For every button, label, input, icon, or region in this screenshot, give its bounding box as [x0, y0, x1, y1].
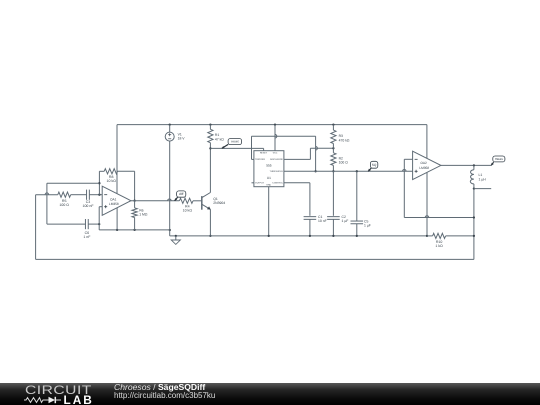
CircuitLab logo zigzag diode symbol: [24, 395, 64, 405]
svg-text:2N3904: 2N3904: [213, 201, 225, 205]
svg-text:100 nF: 100 nF: [82, 204, 94, 208]
svg-text:18 V: 18 V: [178, 137, 186, 141]
net flag diff: [177, 191, 186, 197]
node R10 right: [473, 235, 475, 237]
svg-text:LM358: LM358: [419, 166, 429, 170]
svg-text:1 µF: 1 µF: [342, 219, 349, 223]
label R10: [435, 240, 443, 248]
net flag meas: [493, 156, 505, 162]
node C5 ground: [356, 235, 358, 237]
net flag diff leader: [175, 197, 178, 201]
wire bottom feedback rail: [36, 258, 474, 260]
wire minus node up to R8: [98, 171, 100, 194]
resistor R2 body: [331, 148, 336, 171]
svg-text:1 µF: 1 µF: [364, 224, 371, 228]
wire discharge to R2R3: [310, 147, 333, 149]
svg-text:100 Ω: 100 Ω: [339, 161, 349, 165]
wire hop tri-thr over discharge: [316, 147, 318, 151]
wire hop threshold over OA2 minus drop: [403, 170, 407, 172]
wire hop at input crossing: [45, 193, 49, 195]
wire V1 bottom lead: [169, 141, 171, 236]
wire R5 to C3: [71, 194, 87, 196]
ic U1 555 box: [254, 151, 284, 187]
wire ground spur horizontal: [99, 229, 170, 231]
label R3: [339, 134, 350, 142]
wire R4 to Q1 base: [193, 200, 201, 202]
node minus input junction: [98, 194, 100, 196]
label U1: [267, 176, 271, 180]
wire C6 to plus node: [89, 223, 100, 225]
svg-text:SQ: SQ: [372, 163, 377, 167]
svg-text:diff: diff: [179, 192, 183, 196]
pin label THRESHOLD: [270, 170, 284, 173]
node OA2 V- ground R10: [426, 235, 428, 237]
svg-text:47 kΩ: 47 kΩ: [215, 137, 224, 141]
svg-text:470 kΩ: 470 kΩ: [339, 138, 350, 142]
label R8: [107, 175, 117, 183]
wire L1 tap stub: [474, 188, 491, 190]
wire reset net: [210, 147, 263, 149]
node V1 top rail: [169, 123, 171, 125]
label C6: [83, 231, 91, 239]
svg-text:1 µH: 1 µH: [479, 177, 487, 181]
CircuitLab logo LAB: [64, 393, 94, 405]
svg-text:LM358: LM358: [109, 202, 119, 206]
CircuitLab logo CIRCUIT: [25, 383, 92, 397]
label C1: [318, 215, 327, 223]
wire ground rail: [170, 235, 427, 237]
capacitor C1: [304, 217, 317, 220]
op-amp OA1 triangle: [102, 186, 131, 215]
wire minus branch horizontal: [47, 182, 100, 184]
wire L1 bottom lead: [473, 184, 475, 189]
label R6: [139, 208, 148, 216]
node L1 bottom: [473, 187, 475, 189]
footer bar: [0, 383, 540, 405]
wire OA2 V+ stub: [426, 125, 428, 159]
op-amp OA1 plus sign: [104, 205, 107, 208]
svg-text:meas: meas: [495, 157, 503, 161]
pin label DISCHARGE: [270, 158, 284, 161]
capacitor C3: [87, 190, 90, 200]
wire 555 GND pin down: [268, 187, 270, 236]
pin label CONTROL: [272, 182, 283, 185]
wire plus node down: [98, 224, 100, 230]
label V1: [178, 132, 186, 140]
capacitor C6: [85, 219, 88, 229]
svg-text:THRESHOLD: THRESHOLD: [270, 170, 284, 173]
resistor R8 body: [99, 169, 134, 174]
label C2: [342, 215, 349, 223]
svg-text:100 Ω: 100 Ω: [59, 203, 69, 207]
wire feedback horizontal: [404, 217, 474, 219]
wire trigger horizontal: [252, 135, 316, 137]
net flag reset: [228, 139, 242, 145]
label R5: [59, 199, 69, 207]
node C1 ground: [309, 235, 311, 237]
svg-text:OA1: OA1: [110, 198, 117, 202]
wire input left vertical: [35, 195, 37, 260]
footer title text: [114, 382, 205, 392]
svg-text:TRIGGER: TRIGGER: [255, 158, 265, 161]
wire OA2 output: [441, 164, 491, 166]
wire OA1 output to R4: [131, 200, 180, 202]
wire trigger up: [251, 136, 253, 159]
label R4: [183, 205, 193, 213]
resistor R10 body: [427, 233, 474, 238]
svg-text:OUTPUT: OUTPUT: [255, 182, 265, 185]
node R6 bottom tee: [133, 229, 135, 231]
node C5 top threshold: [356, 170, 358, 172]
resistor R3 body: [331, 125, 336, 149]
node R2 R3 discharge junction: [332, 147, 334, 149]
node output L1 junction: [473, 164, 475, 166]
wire hop VCC over trigger wire: [275, 134, 277, 138]
label Q1: [213, 197, 225, 205]
wire OA2 minus down: [403, 159, 405, 217]
svg-text:555: 555: [266, 164, 272, 168]
svg-text:RESET: RESET: [260, 152, 268, 155]
svg-text:10 nF: 10 nF: [318, 219, 327, 223]
node Q1 emitter ground: [209, 235, 211, 237]
wire C1 bottom: [309, 219, 311, 236]
label L1: [479, 173, 487, 181]
label OA1: [109, 198, 119, 207]
svg-text:10 kΩ: 10 kΩ: [107, 179, 117, 183]
wire C2 bottom: [332, 219, 334, 236]
pin label VCC: [273, 152, 278, 155]
wire 555 OUTPUT stub: [252, 182, 254, 184]
resistor R1 body: [208, 125, 213, 149]
wire reset into 555 RESET pin: [263, 148, 265, 150]
resistor R5 zigzag: [58, 192, 71, 197]
node OA1 output junction: [133, 200, 135, 202]
node R3 top rail: [332, 123, 334, 125]
transistor Q1 emitter arrow: [207, 206, 211, 209]
net flag SQ: [370, 161, 377, 168]
svg-text:10 kΩ: 10 kΩ: [183, 209, 193, 213]
wire C2 top: [332, 171, 334, 216]
wire V1 top lead: [169, 125, 171, 133]
svg-text:1 nF: 1 nF: [83, 235, 91, 239]
svg-text:U1: U1: [267, 176, 271, 180]
op-amp OA2 plus sign: [415, 170, 418, 173]
wire lower loop to C6: [47, 223, 85, 225]
inductor L1 coil: [470, 170, 474, 184]
node R8 left tee: [98, 182, 100, 184]
resistor R4 zigzag: [179, 198, 193, 203]
wire THRESHOLD line: [284, 170, 413, 172]
label R1: [215, 133, 224, 141]
voltage source V1 minus: [168, 138, 171, 140]
wire L1 bottom down: [473, 189, 475, 260]
capacitor C2: [327, 217, 340, 220]
wire plus node up: [98, 207, 100, 224]
net flag reset leader: [222, 144, 228, 148]
capacitor C5: [351, 221, 364, 224]
net flag meas leader: [491, 162, 493, 165]
label C3: [82, 200, 94, 208]
svg-text:GND: GND: [266, 184, 271, 187]
label C5: [364, 220, 371, 228]
node 555 GND rail: [268, 235, 270, 237]
wire L1 top lead: [473, 165, 475, 169]
svg-text:1 kΩ: 1 kΩ: [435, 244, 443, 248]
pin label RESET: [260, 152, 268, 155]
net flag SQ leader: [368, 168, 371, 171]
wire discharge up: [309, 148, 311, 159]
svg-text:reset: reset: [231, 140, 238, 144]
node OA1 V- tee: [116, 229, 118, 231]
voltage source V1 plus: [168, 133, 171, 136]
label OA2: [419, 161, 429, 170]
wire OA2 V- stub: [426, 172, 428, 236]
node R2 bottom threshold: [332, 170, 334, 172]
transistor Q1 base bar: [201, 196, 203, 210]
node C2 ground: [332, 235, 334, 237]
label 555: [266, 164, 272, 168]
svg-text:DISCHARGE: DISCHARGE: [270, 158, 284, 161]
node tri-thr junction: [314, 170, 316, 172]
wire hop over V1 wire: [168, 199, 172, 201]
wire C5 bottom: [356, 224, 358, 236]
op-amp OA2 triangle: [413, 151, 441, 179]
wire OA1 V- power stub: [116, 208, 118, 230]
node feedback corner: [473, 216, 475, 218]
pin label GND: [266, 184, 271, 187]
op-amp OA1 minus sign: [104, 194, 107, 196]
wire C3 to OA1 minus input: [90, 194, 103, 196]
svg-text:1 MΩ: 1 MΩ: [139, 212, 148, 216]
wire OA1 V+ power stub: [116, 125, 118, 194]
wire R8 right down to output: [134, 171, 136, 200]
node ground spur to V1 wire: [169, 229, 171, 231]
node R1 bottom junction: [209, 147, 211, 149]
wire OA1 plus input stub: [99, 206, 102, 208]
pin label TRIGGER: [255, 158, 265, 161]
wire OA2 minus stub: [404, 158, 412, 160]
wire Q1 collector up: [209, 148, 211, 192]
wire hop feedback over V-: [425, 216, 429, 218]
node C6 plus junction: [98, 223, 100, 225]
svg-text:OA2: OA2: [420, 161, 427, 165]
node VCC rail: [274, 123, 276, 125]
wire minus branch down left: [46, 183, 48, 224]
wire C5 top: [356, 171, 358, 221]
ground symbol: [171, 235, 180, 245]
wire input to R5: [36, 194, 58, 196]
pin label OUTPUT: [255, 182, 265, 185]
wire 555 TRIGGER stub: [252, 158, 254, 160]
wire top +18V rail: [117, 124, 427, 126]
wire 555 VCC stub: [274, 125, 276, 151]
voltage source V1 circle: [165, 132, 174, 141]
svg-text:VCC: VCC: [273, 152, 278, 155]
wire Q1 emitter down: [209, 209, 211, 236]
node R1 top rail: [209, 123, 211, 125]
op-amp OA2 minus sign: [415, 158, 418, 160]
wire trigger-threshold vertical: [315, 136, 317, 171]
wire DISCHARGE stub: [284, 158, 311, 160]
resistor R6 body: [132, 201, 137, 230]
label R2: [339, 156, 349, 164]
wire CONTROL to C1: [284, 183, 310, 216]
footer url text: [114, 391, 215, 400]
transistor Q1 emitter diagonal: [202, 204, 210, 209]
transistor Q1 collector diagonal: [202, 193, 210, 198]
svg-text:CONTROL: CONTROL: [272, 182, 283, 185]
